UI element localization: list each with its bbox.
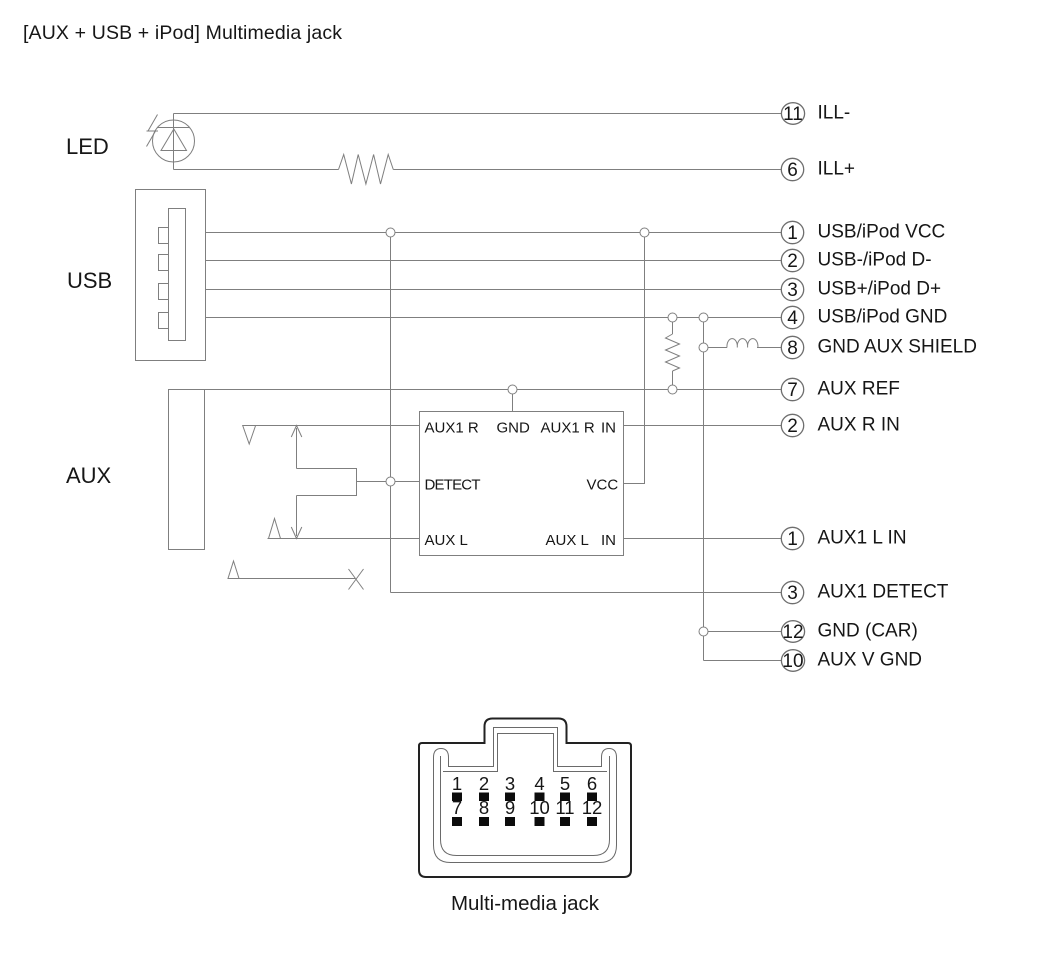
pin 1 USB/iPod VCC [781,221,945,244]
junction node auxref-gndstub [508,385,517,394]
wire shield left [704,347,728,349]
svg-text:AUX1 L IN: AUX1 L IN [818,528,907,549]
connector inner wall outer contour [434,728,617,863]
pin 10 AUX V GND [781,650,922,672]
svg-text:Multi-media jack: Multi-media jack [451,892,600,915]
svg-text:IN: IN [601,420,616,437]
svg-text:USB/iPod VCC: USB/iPod VCC [818,222,946,243]
contact triangle (sleeve) [228,561,239,579]
resistor R2 (GND to AUX REF) [666,318,680,390]
wire vertical GND bus [703,318,705,661]
svg-text:AUX L: AUX L [425,532,468,549]
pin 12 GND (CAR) [781,621,917,643]
wire GND stub to IC [512,390,514,412]
inductor L1 (GND AUX SHIELD) [727,339,758,348]
svg-text:11: 11 [783,104,803,125]
svg-text:10: 10 [782,651,803,672]
svg-text:LED: LED [66,134,109,159]
svg-text:ILL+: ILL+ [818,159,856,180]
svg-text:8: 8 [787,338,798,359]
wire USB VCC (pin 1) [206,232,782,234]
AUX jack J2 [169,390,205,550]
wire AUX R to IC [243,425,420,427]
svg-text:AUX1 DETECT: AUX1 DETECT [818,582,949,603]
connector inner wall inner contour [441,756,610,856]
pin 3 USB+/iPod D+ [781,278,941,301]
svg-text:USB: USB [67,268,112,293]
pin 2 AUX R IN [781,414,900,437]
svg-text:VCC: VCC [587,477,619,494]
wire AUX L to IC [268,538,420,540]
svg-text:7: 7 [787,380,798,401]
svg-text:AUX L: AUX L [546,532,589,549]
junction node gnd-bus [699,313,708,322]
svg-text:12: 12 [782,622,803,643]
connector pads row 2 [452,817,597,826]
wire AUX1 DETECT (pin 3) [391,592,782,594]
svg-text:DETECT: DETECT [425,477,481,494]
switch arm down arrow [291,496,302,539]
svg-text:6: 6 [787,160,798,181]
svg-text:USB+/iPod D+: USB+/iPod D+ [818,279,942,300]
wire AUX R IN (pin 2) [624,425,782,427]
pin 2 USB-/iPod D- [781,249,931,272]
pin 7 AUX REF [781,378,900,401]
svg-text:11: 11 [555,797,574,818]
wire USB D+ (pin 3) [206,289,782,291]
junction node shield [699,343,708,352]
junction node detect [386,477,395,486]
wire AUX REF (pin 7) [205,389,782,391]
junction node gndcar [699,627,708,636]
LED D1 [147,114,195,170]
svg-text:4: 4 [534,773,544,794]
USB connector J1 [136,190,206,361]
wire vertical VCC-to-DETECT net [390,233,392,593]
svg-text:1: 1 [452,773,462,794]
svg-text:12: 12 [582,797,603,818]
svg-text:1: 1 [787,223,798,244]
svg-text:USB-/iPod D-: USB-/iPod D- [818,250,932,271]
svg-text:3: 3 [505,773,515,794]
wire GND (CAR) (pin 12) [704,631,782,633]
resistor R1 (ILL+ line) [339,155,394,185]
svg-text:[AUX + USB + iPod] Multimedia: [AUX + USB + iPod] Multimedia jack [23,22,342,44]
pin 4 USB/iPod GND [781,306,947,329]
connector pin numbers row 1 [452,773,597,794]
junction node gnd-resistor [668,313,677,322]
wire ILL+ (pin 6) left segment [174,169,339,171]
svg-text:10: 10 [529,797,550,818]
junction node auxref-resistor [668,385,677,394]
svg-text:AUX1 R: AUX1 R [541,420,595,437]
svg-text:5: 5 [560,773,570,794]
svg-text:USB/iPod GND: USB/iPod GND [818,307,948,328]
svg-text:3: 3 [787,583,798,604]
svg-text:AUX R IN: AUX R IN [818,415,900,436]
connector pin numbers row 2 [452,797,602,818]
svg-text:AUX V GND: AUX V GND [818,650,923,671]
multimedia jack connector outline [419,719,631,878]
svg-text:8: 8 [479,797,489,818]
connector pads row 1 [452,793,597,802]
svg-text:2: 2 [787,416,798,437]
wire shield right [757,347,781,349]
svg-text:AUX REF: AUX REF [818,379,900,400]
svg-text:2: 2 [787,251,798,272]
junction node wire1-vcc [640,228,649,237]
wire ILL- (pin 11) [174,113,782,115]
svg-text:7: 7 [452,797,462,818]
svg-text:2: 2 [479,773,489,794]
wire USB D- (pin 2) [206,260,782,262]
pin 11 ILL- [781,103,850,125]
svg-text:1: 1 [787,529,798,550]
contact triangle (AUX L tip) [269,519,281,539]
pin 6 ILL+ [781,158,855,181]
svg-text:3: 3 [787,280,798,301]
switch arm up arrow [291,426,302,469]
connector inner tab contour [443,734,607,772]
svg-text:4: 4 [787,308,798,329]
wire vertical VCC-to-IC [624,233,645,484]
pin 8 GND AUX SHIELD [781,336,977,359]
junction node wire1-detect [386,228,395,237]
svg-text:AUX: AUX [66,463,112,488]
IC U1 [420,412,624,556]
svg-text:AUX1 R: AUX1 R [425,420,479,437]
svg-text:GND (CAR): GND (CAR) [818,621,918,642]
svg-text:GND AUX SHIELD: GND AUX SHIELD [818,337,977,358]
svg-text:IN: IN [601,532,616,549]
pin 3 AUX1 DETECT [781,581,949,604]
pin 1 AUX1 L IN [781,527,906,550]
wire AUX1 L IN (pin 1) [624,538,782,540]
wire USB GND (pin 4) [206,317,782,319]
svg-text:9: 9 [505,797,515,818]
svg-text:ILL-: ILL- [818,103,851,124]
svg-text:GND: GND [497,420,531,437]
wire ILL+ right segment [393,169,781,171]
wire sleeve stub [239,578,355,580]
svg-text:6: 6 [587,773,597,794]
wire AUX V GND (pin 10) [704,660,782,662]
no-connect X [349,569,364,590]
wire DETECT to IC [357,481,420,483]
switch yoke [297,469,357,496]
contact triangle (AUX R tip) [243,426,256,445]
